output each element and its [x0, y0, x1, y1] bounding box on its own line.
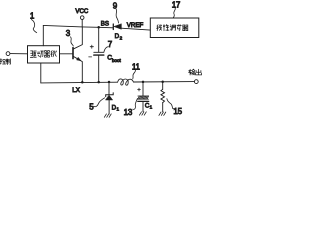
node junction dot C1/out [142, 81, 145, 84]
leader for 15 [167, 99, 174, 109]
diode D1 body [106, 95, 113, 100]
wire left vertical into driver box [42, 25, 44, 45]
ground for D1 [104, 114, 111, 117]
output terminal [194, 80, 198, 84]
svg-text:13: 13 [124, 108, 133, 117]
driver stage box U1 [28, 46, 60, 63]
diode D2 body [114, 24, 121, 29]
diode D1 top lead [108, 82, 110, 95]
svg-text:2: 2 [120, 36, 123, 41]
node junction dot emitter/LX [81, 81, 84, 84]
wire control to driver box [10, 53, 28, 55]
capacitor C1 bottom lead [142, 101, 144, 111]
svg-text:9: 9 [113, 1, 118, 10]
output label 输出 [189, 69, 202, 75]
capacitor C1 hatched plate [138, 96, 149, 99]
diode D2 cathode bar [112, 24, 114, 30]
VCC terminal [80, 16, 84, 20]
capacitor Cboot minus sign [89, 56, 92, 58]
leader for 7 [104, 47, 108, 53]
svg-text:BS: BS [101, 21, 109, 28]
wire driver box to transistor base [60, 53, 74, 55]
leader for 11 [133, 70, 136, 79]
node junction dot D1/LX [108, 81, 111, 84]
wire top rail right (VREF segment) [121, 28, 150, 30]
capacitor C1 bottom plate [138, 100, 149, 102]
resistor R15 bottom lead [162, 103, 164, 112]
capacitor Cboot bottom lead [98, 55, 100, 82]
node BS junction dot [97, 26, 100, 29]
diode D1 schottky bar [106, 93, 114, 97]
svg-text:VCC: VCC [75, 8, 88, 15]
ground for R15 [159, 112, 166, 115]
wire LX rail left of inductor [41, 81, 118, 84]
leader for 17 [173, 8, 175, 18]
capacitor Cboot plates [94, 51, 104, 53]
svg-text:5: 5 [89, 103, 94, 112]
wire driver box bottom to LX rail [40, 63, 42, 83]
control input terminal [6, 52, 10, 56]
svg-text:15: 15 [173, 107, 182, 116]
leader for 9 [116, 9, 119, 23]
linear regulator label 线性调节器 [157, 25, 188, 31]
leader for 3 [70, 37, 73, 46]
leader for 5 [94, 98, 105, 107]
wire LX rail right of inductor to output [133, 81, 194, 83]
capacitor Cboot plus sign [90, 45, 93, 48]
capacitor Cboot top lead [98, 27, 100, 52]
driver stage box label 驱动器级 [30, 51, 56, 58]
svg-text:1: 1 [117, 107, 120, 112]
inductor L1 [118, 79, 134, 85]
svg-text:boot: boot [112, 58, 122, 63]
transistor Q1 emitter with arrow [73, 56, 82, 82]
svg-text:11: 11 [132, 62, 141, 71]
diode D1 bottom lead [108, 100, 110, 114]
leader for 1 [31, 20, 36, 33]
control label 控制 [0, 59, 11, 65]
resistor R15 zigzag [161, 89, 165, 102]
node junction dot R15/out [161, 81, 164, 84]
svg-text:1: 1 [150, 105, 153, 110]
wire top rail left (VCC/BS segment) [43, 25, 113, 27]
leader for 13 [133, 98, 138, 109]
node junction dot Cboot/LX [97, 81, 100, 84]
transistor Q1 base bar [72, 48, 74, 59]
transistor Q1 collector [73, 27, 82, 49]
resistor R15 top lead [162, 82, 164, 90]
svg-text:VREF: VREF [127, 22, 144, 29]
capacitor C1 top lead [142, 82, 144, 96]
svg-text:LX: LX [72, 87, 81, 94]
svg-text:1: 1 [30, 11, 35, 20]
svg-text:7: 7 [108, 40, 113, 49]
capacitor C1 plus mark [138, 88, 141, 91]
ground for C1 [139, 112, 146, 115]
svg-text:17: 17 [172, 0, 181, 9]
linear regulator box U2 [150, 18, 199, 38]
